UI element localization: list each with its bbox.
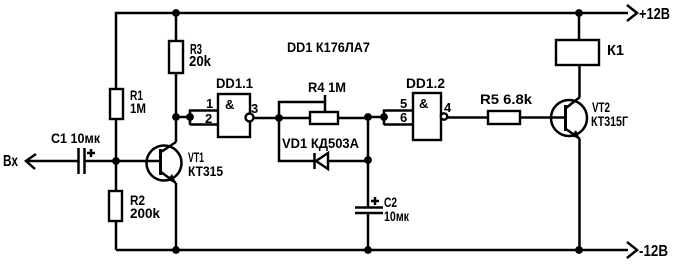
input Вх label [3,153,18,170]
node: C1/R1/R2/base junction [112,157,120,165]
power +12В [627,5,670,23]
wire: base of VT1 [116,160,161,163]
value label R3 20k [189,41,212,70]
node B: R4/DD1.2 in/C2 [364,113,372,121]
pin label 5 [400,96,407,111]
wire: node B to DD1.2 inputs [368,116,384,119]
label DD1.1 [216,75,253,91]
wire: bottom -12V rail [116,249,628,252]
label DD1 К176ЛА7 [287,39,370,55]
power -12В [627,242,668,260]
wire: node A down to VD1 [278,118,281,162]
svg-text:-12В: -12В [639,243,668,260]
node: VD1 on node B vertical [364,156,372,164]
DD1.1 output bubble pin 3 [246,114,254,122]
wire: R4 wiper stem [324,95,327,112]
resistor R2 [109,191,122,221]
value label C2 10мк [384,194,410,224]
svg-text:3: 3 [251,101,258,116]
resistor R1 [110,89,123,119]
wire: input arrow to C1 [26,154,78,169]
svg-text:DD1 К176ЛА7: DD1 К176ЛА7 [287,39,370,55]
svg-text:1: 1 [206,96,213,111]
resistor R3 [169,41,183,73]
pin label 1 [206,96,213,111]
wire: node A to R4 [279,117,310,120]
svg-text:6: 6 [400,110,407,125]
svg-text:DD1.1: DD1.1 [216,75,253,91]
svg-text:С1 10мк: С1 10мк [51,130,101,146]
svg-text:R5 6.8k: R5 6.8k [480,91,532,107]
DD1.2 output bubble pin 4 [441,113,447,119]
svg-text:&: & [419,96,428,111]
value label R1 1M [130,87,146,116]
label K1 [607,42,624,59]
value label C1 10мк [51,130,101,146]
node A: DD1.1 out / R4 / VD1 [275,114,283,122]
node: DD1.2 input tie [380,113,388,121]
wire: VT2 emitter to bottom rail [578,139,581,250]
pin label 6 [400,110,407,125]
resistor R5 [488,111,520,124]
diode VD1 [315,153,329,169]
svg-text:2: 2 [205,111,212,126]
node: emitter on bottom rail [172,246,180,254]
transistor VT1 [147,142,182,183]
node: VT2 emitter on bottom rail [575,246,583,254]
svg-text:Вх: Вх [3,153,18,170]
wire: VT1 collector up to node [175,117,178,142]
wire: DD1.1 output to node A [254,117,280,120]
svg-text:КТ315Г: КТ315Г [591,113,628,129]
node: DD1.1 input tie [186,113,194,121]
value label R5 6.8k [480,91,532,107]
wire: R4 to node B [338,117,368,120]
wire: R5 to VT2 base [520,116,566,119]
svg-text:VD1 КД503А: VD1 КД503А [282,135,359,151]
node: top rail junction (R3 branch) [172,9,180,17]
pin label 3 [251,101,258,116]
svg-text:20k: 20k [189,53,212,70]
svg-text:+12В: +12В [639,6,670,23]
wire: K1 to top rail [578,13,581,40]
svg-text:К1: К1 [607,42,624,59]
pin label 2 [205,111,212,126]
value label R2 200k [130,192,160,221]
svg-text:1М: 1М [130,100,146,116]
label VT1 КТ315 [188,149,223,179]
svg-text:5: 5 [400,96,407,111]
node: C2 on bottom rail [364,246,372,254]
svg-text:DD1.2: DD1.2 [406,75,445,91]
svg-text:&: & [225,97,234,112]
wire: DD1.2 output to R5 [447,116,488,119]
wire: R3 branch vertical [175,13,178,117]
wire: DD1.2 pin 5 [384,111,413,126]
op-amp gate DD1.2 [413,93,441,140]
node: top rail junction (K1 branch) [575,9,583,17]
pin label 4 [444,100,452,115]
svg-text:200k: 200k [130,205,160,221]
transistor VT2 [551,97,587,139]
wire: DD1.1 pin 1 [190,111,218,126]
wire: VT1 emitter down to rail [175,183,178,250]
wire: top +12V rail [116,13,628,250]
wire: C1 to left vertical [85,160,116,163]
wire: node to DD1.1 inputs [176,116,190,119]
wire: DD1.1 pin 2 [190,123,218,126]
resistor R4 [310,112,338,124]
node: R3/collector/DD1.1 input junction [172,113,180,121]
wire: DD1.2 pin 6 [384,123,413,126]
relay K1 [556,40,599,65]
svg-text:R4 1М: R4 1М [308,79,346,95]
svg-text:4: 4 [444,100,452,115]
op-amp gate DD1.1 [218,94,250,137]
wire: VD1 anode row [278,160,314,163]
label DD1.2 [406,75,445,91]
svg-text:КТ315: КТ315 [188,163,223,179]
value label R4 1M [308,79,346,95]
wire: VD1 cathode to node B vertical [328,160,368,163]
wire: VT2 collector to K1 [578,65,581,97]
wire: C2 to bottom rail [367,213,370,250]
label VD1 КД503А [282,135,359,151]
wire: R4 wiper loop [279,102,325,118]
wire: node B down to C2 [367,117,370,207]
capacitor C1 [79,148,96,174]
label VT2 КТ315Г [591,99,628,129]
capacitor C2 [355,197,383,213]
svg-text:10мк: 10мк [384,208,410,224]
